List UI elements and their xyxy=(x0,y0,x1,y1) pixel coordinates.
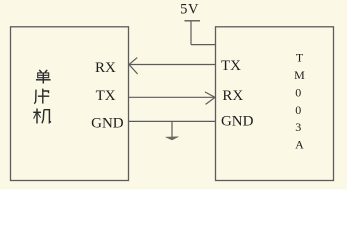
label 单 (MCU name char 1) xyxy=(36,70,51,84)
label 片 (MCU name char 2) xyxy=(34,89,49,104)
svg-text:RX: RX xyxy=(222,88,243,104)
wire TX net (MCU TX to module RX) xyxy=(129,96,216,98)
ground symbol xyxy=(166,137,179,140)
arrowhead into module RX xyxy=(205,92,215,105)
arrowhead into MCU RX xyxy=(129,58,138,74)
svg-text:GND: GND xyxy=(221,113,254,129)
wire 5V to module xyxy=(191,44,216,46)
label 机 (MCU name char 3) xyxy=(33,109,51,124)
ground stub wire xyxy=(171,121,173,137)
module block U2 (TMO03A) xyxy=(216,27,334,181)
background paper xyxy=(0,0,347,190)
module name TMO03A (vertical) xyxy=(294,51,305,152)
svg-text:TX: TX xyxy=(96,88,116,104)
svg-text:T: T xyxy=(296,51,304,65)
MCU block U1 (单片机) xyxy=(11,27,129,181)
svg-text:M: M xyxy=(294,68,305,82)
svg-text:5V: 5V xyxy=(180,2,199,18)
wire 5V vertical drop xyxy=(190,21,192,45)
svg-text:0: 0 xyxy=(295,103,301,117)
svg-text:TX: TX xyxy=(221,58,241,74)
svg-text:0: 0 xyxy=(295,85,301,99)
wire RX net (module TX to MCU RX) xyxy=(129,64,216,66)
power rail bar (5V) xyxy=(185,20,201,22)
wire GND net xyxy=(129,120,216,122)
svg-text:A: A xyxy=(295,138,304,152)
svg-text:3: 3 xyxy=(295,120,301,134)
svg-text:RX: RX xyxy=(95,60,116,76)
svg-text:GND: GND xyxy=(91,116,124,132)
